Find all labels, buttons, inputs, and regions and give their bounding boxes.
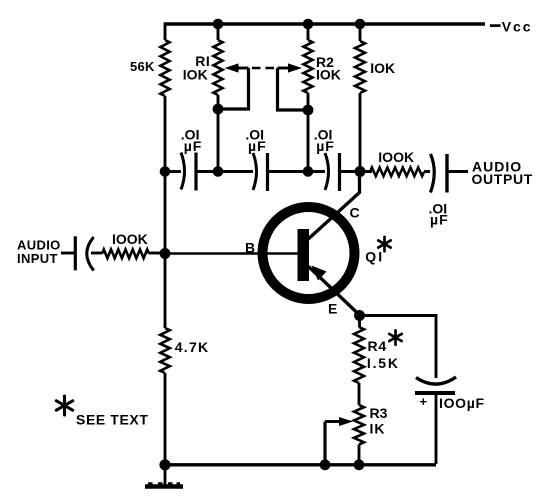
node junction dot R2 bottom [303,166,314,177]
wire R2 bottom lead [307,93,310,171]
wire R2 wiper link to lower lead [278,68,309,110]
capacitor 100uF straight plate [415,391,455,395]
svg-text:OUTPUT: OUTPUT [472,171,533,187]
wire R2 top lead [307,24,310,40]
svg-text:µF: µF [248,138,267,154]
svg-text:IOOµF: IOOµF [439,395,485,411]
wire phase-shift line seg 1 [165,170,181,173]
svg-text:Vcc: Vcc [502,19,533,35]
potentiometer R3 [354,405,364,445]
wire seg 4 [340,170,373,173]
wire R1 top lead [217,24,220,40]
svg-text:C: C [350,205,360,221]
wire R3 wiper to ground rail [323,422,326,465]
R1 wiper arrow [238,67,249,70]
capacitor .01uF second [253,153,257,190]
svg-text:IOOK: IOOK [378,149,414,165]
ground symbol [145,484,183,489]
svg-text:IOK: IOK [316,67,341,83]
wire R4 top lead [358,316,361,328]
svg-text:QI: QI [365,249,384,265]
wire R4-R3 link [358,383,361,405]
capacitor .01uF first [181,153,185,190]
transistor Q1 circle [263,207,355,299]
resistor 100K input [102,249,149,258]
resistor R4 [354,327,364,383]
asterisk for SEE TEXT note [63,396,66,415]
wire collector lead [306,172,360,242]
potentiometer R2 [303,40,312,93]
potentiometer R1 [213,40,222,95]
svg-text:IOK: IOK [370,60,395,76]
capacitor input coupling [74,236,77,270]
resistor 10K [355,41,365,93]
wire to audio output [447,170,468,173]
svg-text:µF: µF [316,138,335,154]
wire 56K branch top lead [164,22,167,40]
svg-text:+: + [420,394,428,409]
wire seg 3 [268,170,326,173]
wire R3 bottom lead [358,445,361,465]
svg-text:B: B [245,240,255,256]
svg-text:IK: IK [370,421,386,437]
wire cap to 100K [91,252,102,255]
svg-text:I.5K: I.5K [367,355,400,371]
svg-text:SEE TEXT: SEE TEXT [76,412,148,428]
wire seg 2 [196,170,253,173]
wire left branch mid [164,172,167,254]
wire 100uF bottom lead [435,393,438,464]
svg-text:IOK: IOK [183,67,208,83]
wire emitter lead [309,267,360,316]
node junction dot emitter [354,310,365,321]
wire 100K to output cap [424,170,430,173]
wire input stub [61,252,74,255]
wire base lead [165,252,299,255]
wire 56K bottom lead [164,96,167,171]
node junction dot left cap line [160,166,171,177]
svg-text:IOOK: IOOK [112,231,148,247]
wire bottom ground rail [165,463,436,466]
wire R1 wiper link to lower lead [218,68,249,109]
capacitor 100uF electrolytic curved plate [416,377,456,384]
node junction dot collector/output [355,166,366,177]
svg-text:56K: 56K [130,59,155,74]
asterisk for R4 [394,330,397,344]
capacitor .01uF output [431,154,435,193]
wire 10K bottom lead [359,93,362,172]
wire ground stub [164,464,167,485]
svg-text:INPUT: INPUT [17,251,58,266]
ganged-pot dashed link R1-R2 [252,67,277,70]
capacitor .01uF third [325,153,329,190]
resistor 4.7K [160,328,170,373]
wire R1 bottom lead [217,95,220,171]
node junction dot 10K top [355,19,366,30]
svg-text:R4: R4 [368,338,388,354]
svg-text:E: E [328,301,337,317]
emitter arrowhead (PNP) [312,266,327,281]
node junction dot ground [159,459,170,470]
resistor 56K [160,40,169,96]
svg-text:4.7K: 4.7K [175,339,210,355]
R2 wiper arrow [278,67,289,70]
node junction dot R2 top [303,19,314,30]
node junction dot R1 wiper [213,104,224,115]
node junction dot wiper/rail [320,459,331,470]
svg-text:µF: µF [430,211,449,227]
resistor 100K output [370,168,424,177]
wire top supply rail [165,22,485,25]
node junction dot R2 wiper [303,105,314,116]
wire emitter node to bypass cap [360,316,437,379]
asterisk for Q1 [383,237,386,251]
svg-text:R3: R3 [370,405,388,421]
wire 10K top lead [359,24,362,41]
net -Vcc label [490,24,501,27]
transistor Q1 base bar [298,229,310,281]
node junction dot R1 top [213,19,224,30]
wire 100K to base node [149,252,165,255]
svg-text:µF: µF [184,138,203,154]
node junction dot R3/rail [354,459,365,470]
wire left branch to 4.7K [164,254,167,329]
node junction dot R1 bottom [213,166,224,177]
node junction dot base/input [160,248,171,259]
R3 wiper arrow [325,420,339,423]
wire 4.7K to ground rail [164,373,167,464]
